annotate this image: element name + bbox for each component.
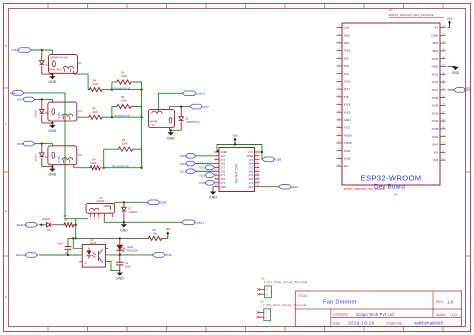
junction U3 pin1 on loop — [217, 150, 219, 152]
junction +5V on loop — [234, 143, 236, 145]
svg-text:1Y1: 1Y1 — [248, 158, 253, 162]
svg-text:1/1: 1/1 — [452, 312, 458, 317]
svg-text:10: 10 — [338, 95, 340, 97]
svg-text:2_Pin_5mm_Screw_Terminal: 2_Pin_5mm_Screw_Terminal — [263, 303, 307, 307]
svg-text:IO2: IO2 — [344, 56, 349, 60]
svg-text:13: 13 — [338, 118, 340, 120]
svg-text:IO16: IO16 — [344, 80, 351, 84]
LED LED1 Red1206 — [119, 238, 121, 244]
svg-text:IO26: IO26 — [275, 158, 282, 162]
svg-text:1A1: 1A1 — [220, 154, 225, 158]
svg-text:4: 4 — [339, 49, 340, 51]
svg-text:HF46F: HF46F — [97, 199, 105, 203]
+5V supply at U3 — [234, 139, 236, 144]
svg-text:11: 11 — [338, 103, 340, 105]
+5V supply at U7 — [449, 22, 451, 27]
svg-text:16: 16 — [338, 141, 340, 143]
svg-text:220k: 220k — [93, 82, 99, 86]
svg-text:IO04: IO04 — [291, 185, 298, 189]
wire R4 to junction row1 — [103, 89, 112, 91]
svg-text:2: 2 — [94, 218, 95, 220]
wire D1 cathode to coil return — [42, 73, 53, 75]
svg-text:IO18: IO18 — [344, 103, 351, 107]
svg-text:2A1: 2A1 — [248, 185, 253, 189]
svg-text:7: 7 — [216, 162, 217, 164]
svg-text:IO0: IO0 — [344, 64, 349, 68]
junction LED1 cathode node — [119, 254, 121, 256]
svg-text:GND: GND — [167, 136, 175, 140]
svg-text:SVN: SVN — [432, 135, 438, 139]
net label dim-selector-4A on row3 wire — [104, 167, 142, 169]
svg-text:IO13: IO13 — [432, 57, 439, 61]
svg-text:36: 36 — [443, 41, 445, 43]
junction row1 left — [111, 88, 113, 90]
svg-text:HF46F: HF46F — [58, 155, 61, 163]
wire OE enable loop around U3 — [217, 145, 262, 160]
svg-text:1A4: 1A4 — [220, 177, 225, 181]
junction D7 return on load wire — [123, 221, 125, 223]
svg-text:27: 27 — [443, 112, 445, 114]
svg-text:HF46F D4-HS: HF46F D4-HS — [51, 56, 68, 60]
junction on IO05 net — [41, 142, 43, 144]
wire opto top rail — [68, 237, 147, 239]
svg-text:dim-selector-4A: dim-selector-4A — [112, 165, 129, 168]
net port IO22 to U3 — [206, 165, 215, 170]
svg-text:K2: K2 — [78, 109, 82, 113]
relay K5 HF46F — [86, 203, 115, 213]
svg-text:IO27: IO27 — [465, 88, 471, 92]
resistor R2 220k parallel branch — [112, 107, 116, 118]
net port Load 1 — [181, 220, 194, 225]
svg-text:GND: GND — [48, 173, 56, 177]
svg-text:ESP32-WROOM: ESP32-WROOM — [361, 173, 422, 182]
svg-text:IO17: IO17 — [344, 87, 351, 91]
svg-text:ESP32_WROOM_DEV_MODULE: ESP32_WROOM_DEV_MODULE — [389, 13, 434, 17]
svg-text:1A3: 1A3 — [220, 169, 225, 173]
net port IO23 to U3 — [206, 173, 215, 178]
svg-text:SD1: SD1 — [344, 41, 350, 45]
svg-text:220k: 220k — [90, 161, 96, 165]
svg-text:GND: GND — [116, 277, 124, 281]
svg-text:IO19: IO19 — [180, 162, 187, 166]
ground at K4 — [170, 130, 172, 132]
svg-text:SD3: SD3 — [432, 41, 438, 45]
svg-text:31: 31 — [443, 80, 445, 82]
svg-text:2A3: 2A3 — [248, 169, 253, 173]
wire K5 coil to IO04 port — [115, 201, 147, 203]
svg-text:C1: C1 — [125, 261, 129, 265]
wire 5V pin to +5V — [448, 27, 450, 29]
wire U3 GND pin — [213, 187, 214, 190]
wire IO17 to relay K2 coil — [35, 99, 52, 102]
svg-text:EN: EN — [344, 164, 348, 168]
resistor R3 220k parallel branch — [104, 149, 117, 168]
U7 right pins — [440, 27, 446, 29]
junction K4 ground node — [170, 129, 172, 131]
svg-text:IO35: IO35 — [432, 127, 439, 131]
svg-text:IO19: IO19 — [344, 110, 351, 114]
svg-text:1: 1 — [339, 26, 340, 28]
resistor R8 10k pullup — [147, 236, 163, 240]
ground at U3 — [212, 190, 214, 192]
junction C2 bottom — [67, 254, 69, 256]
svg-text:2: 2 — [257, 150, 258, 152]
diode D7 1N4007 flyback — [123, 202, 125, 207]
svg-text:VCC: VCC — [248, 150, 254, 154]
svg-text:1Y4: 1Y4 — [248, 181, 253, 185]
svg-text:12: 12 — [338, 110, 340, 112]
wire D6 to R7 — [52, 224, 63, 226]
svg-text:IO27: IO27 — [432, 88, 439, 92]
wire R7 node vertical — [75, 219, 77, 239]
svg-text:2: 2 — [339, 33, 340, 35]
net port Neutral — [26, 253, 38, 258]
svg-text:1N4007: 1N4007 — [36, 109, 38, 117]
wire K5 pin to Load 1 port — [104, 217, 181, 222]
svg-text:R6: R6 — [93, 157, 97, 161]
svg-text:23: 23 — [443, 143, 445, 145]
svg-text:IO32: IO32 — [432, 119, 439, 123]
svg-text:K1: K1 — [78, 61, 82, 65]
svg-text:3: 3 — [98, 218, 99, 220]
net port IO16 — [18, 48, 31, 53]
svg-text:Load 1: Load 1 — [195, 221, 205, 225]
net port IO21 to U3 — [186, 169, 196, 174]
svg-text:220k: 220k — [122, 142, 128, 146]
svg-text:CMD: CMD — [431, 33, 439, 37]
svg-text:5: 5 — [339, 57, 340, 59]
svg-text:12: 12 — [257, 170, 259, 172]
svg-text:34: 34 — [443, 57, 445, 59]
wire Live bus vertical — [64, 93, 66, 219]
svg-text:+5V: +5V — [447, 16, 452, 20]
svg-text:8: 8 — [339, 80, 340, 82]
svg-text:28: 28 — [443, 104, 445, 106]
svg-text:220k: 220k — [92, 110, 98, 114]
svg-text:2_Pin_5mm_Screw_Terminal: 2_Pin_5mm_Screw_Terminal — [264, 280, 308, 284]
svg-text:14: 14 — [257, 174, 259, 176]
net port IO05 — [24, 141, 35, 146]
svg-text:IO04: IO04 — [160, 201, 167, 205]
wire Neutral to U2 pin2 — [39, 254, 79, 256]
svg-text:TXD0: TXD0 — [344, 141, 352, 145]
svg-text:5: 5 — [216, 158, 217, 160]
junction at D5 top — [180, 105, 182, 107]
svg-text:9: 9 — [339, 87, 340, 89]
connector U6 2_Pin_5mm_Screw_Terminal — [265, 286, 272, 298]
svg-text:IO05: IO05 — [17, 142, 24, 146]
junction at K2 coil return — [51, 122, 53, 124]
svg-text:1N4007RLG: 1N4007RLG — [185, 120, 199, 124]
svg-text:4: 4 — [257, 154, 258, 156]
svg-text:29: 29 — [443, 96, 445, 98]
wire K3 contact to R6 — [74, 165, 89, 168]
svg-text:220k: 220k — [121, 99, 127, 103]
svg-text:IO35: IO35 — [165, 253, 172, 257]
svg-text:10uF: 10uF — [125, 265, 131, 269]
svg-text:15: 15 — [338, 134, 340, 136]
wire R8 to +5V — [163, 237, 168, 239]
svg-text:32: 32 — [443, 73, 445, 75]
relay K4 HF46F — [149, 109, 175, 127]
buffer U3 SN74HCT244 — [219, 148, 255, 192]
svg-text:24: 24 — [443, 135, 445, 137]
svg-text:IO22: IO22 — [199, 166, 206, 170]
svg-text:TITLE:: TITLE: — [298, 294, 308, 298]
svg-text:16: 16 — [257, 177, 259, 179]
svg-text:GND: GND — [48, 80, 56, 84]
svg-text:10k: 10k — [153, 232, 158, 236]
module U7 ESP32_WROOM_DEV_MODULE — [342, 23, 440, 185]
svg-text:Neutral: Neutral — [16, 253, 26, 257]
svg-text:2Y3: 2Y3 — [220, 166, 225, 170]
svg-text:1N4007: 1N4007 — [42, 218, 51, 221]
svg-text:GND: GND — [452, 71, 460, 75]
junction R7 to K5 row — [75, 224, 77, 226]
svg-text:1A2: 1A2 — [220, 162, 225, 166]
svg-text:2Y2: 2Y2 — [220, 173, 225, 177]
svg-text:NC: NC — [84, 263, 88, 265]
ground at K1 — [51, 74, 53, 76]
wire U3 2A1 to IO04 port — [260, 186, 279, 188]
svg-text:GND: GND — [432, 65, 440, 69]
svg-text:IO17: IO17 — [17, 98, 24, 102]
svg-text:iCapo Tech Pvt Ltd: iCapo Tech Pvt Ltd — [356, 312, 394, 317]
svg-text:Company:: Company: — [333, 313, 349, 317]
svg-text:IO25: IO25 — [199, 181, 206, 185]
net port IO26 at U3 2OE# — [262, 157, 274, 162]
title block — [295, 291, 461, 327]
svg-text:Red1206: Red1206 — [127, 249, 138, 253]
svg-text:10: 10 — [257, 166, 259, 168]
ground at K2 — [51, 123, 53, 125]
wire U2 pin1 riser — [73, 238, 79, 248]
junction row2 left — [111, 116, 113, 118]
svg-text:3: 3 — [339, 41, 340, 43]
svg-text:2Y1: 2Y1 — [220, 181, 225, 185]
net port Live — [12, 91, 24, 96]
svg-text:18: 18 — [338, 157, 340, 159]
svg-text:2A4: 2A4 — [248, 162, 253, 166]
svg-text:IO16: IO16 — [11, 48, 18, 52]
svg-text:1Y2: 1Y2 — [248, 166, 253, 170]
wire Switch to D6 — [39, 224, 47, 226]
svg-text:Fan Dimmer: Fan Dimmer — [323, 300, 357, 306]
junction at K1 coil return — [51, 73, 53, 75]
U7 left pins — [337, 27, 343, 29]
ground at C1 — [119, 271, 121, 273]
svg-text:1Y3: 1Y3 — [248, 173, 253, 177]
svg-text:1OE#: 1OE# — [220, 150, 227, 154]
resistor R1 220k parallel branch — [111, 82, 113, 90]
net port Switch — [26, 223, 38, 228]
svg-text:IO14: IO14 — [432, 80, 439, 84]
wire K4 bottom to D5 and ground — [169, 129, 181, 131]
relay K3 HF46F — [48, 146, 77, 165]
svg-text:IO23: IO23 — [199, 173, 206, 177]
junction opto pin1 riser — [72, 237, 74, 239]
svg-text:Sheet:: Sheet: — [436, 313, 446, 317]
svg-text:33: 33 — [443, 65, 445, 67]
wire Live bus to relay K5 row — [65, 218, 88, 220]
svg-text:37: 37 — [443, 34, 445, 36]
svg-text:D7: D7 — [128, 206, 132, 210]
junction at D7 top — [123, 201, 125, 203]
svg-text:1M: 1M — [64, 217, 68, 221]
svg-text:20: 20 — [257, 185, 259, 187]
svg-text:1N4007: 1N4007 — [36, 153, 38, 161]
junction Switch net — [40, 224, 42, 226]
svg-text:B: B — [5, 44, 7, 48]
net port Load 4 — [182, 91, 195, 96]
ground at K5 — [123, 222, 125, 224]
diode D4 1N4007 flyback — [41, 144, 43, 153]
resistor R6 220k — [89, 166, 102, 170]
svg-text:GND: GND — [120, 228, 128, 232]
svg-text:Load 4: Load 4 — [196, 92, 206, 96]
svg-text:19: 19 — [215, 185, 217, 187]
svg-text:9: 9 — [216, 166, 217, 168]
wire K4 to IO27 port — [169, 106, 189, 108]
svg-text:IO21: IO21 — [180, 169, 187, 173]
resistor R5 220k — [88, 115, 104, 119]
svg-text:IO12: IO12 — [432, 72, 439, 76]
wire GND pin to ground — [448, 66, 453, 68]
capacitor C2 10uF — [67, 238, 69, 246]
svg-text:R3: R3 — [122, 138, 126, 142]
wire IO27 pin to port — [448, 89, 454, 91]
svg-text:SD2: SD2 — [432, 49, 438, 53]
svg-text:REV:: REV: — [436, 300, 444, 304]
svg-text:EN: EN — [434, 150, 438, 154]
wire R5 to junction row2 — [104, 116, 112, 118]
svg-text:IO22: IO22 — [344, 149, 351, 153]
net port IO27 at U7 — [454, 88, 465, 93]
net label dim-selector-1A on row1 wire — [112, 89, 142, 91]
net port IO17 — [24, 97, 35, 102]
wire U2 collector output — [108, 254, 152, 256]
svg-text:6: 6 — [339, 64, 340, 66]
svg-text:U7: U7 — [389, 8, 393, 12]
svg-text:17: 17 — [338, 149, 340, 151]
junction R7 node at opto rail — [75, 237, 77, 239]
junction VCC loop — [261, 151, 263, 153]
svg-text:SD0: SD0 — [344, 33, 350, 37]
relay K1 HF46F — [49, 54, 78, 73]
svg-text:IO27: IO27 — [202, 105, 209, 109]
svg-text:22: 22 — [443, 151, 445, 153]
svg-text:GND: GND — [209, 196, 217, 200]
svg-text:30: 30 — [443, 88, 445, 90]
svg-text:IO25: IO25 — [432, 104, 439, 108]
net port IO04 at K5 — [147, 200, 159, 205]
svg-text:Date:: Date: — [333, 321, 342, 325]
svg-text:6: 6 — [257, 158, 258, 160]
junction on IO16 net — [41, 49, 43, 51]
svg-text:HF46F: HF46F — [58, 111, 61, 119]
svg-text:15: 15 — [215, 177, 217, 179]
svg-text:10uF: 10uF — [57, 241, 63, 245]
svg-text:IO18: IO18 — [180, 154, 187, 158]
svg-text:Drawn By:: Drawn By: — [386, 321, 403, 325]
svg-text:dim-selector-2A: dim-selector-2A — [114, 114, 131, 117]
svg-text:1: 1 — [90, 218, 91, 220]
svg-text:220k: 220k — [121, 74, 127, 78]
net port IO27 at K4 — [190, 104, 202, 109]
svg-text:CLK: CLK — [344, 26, 351, 30]
svg-text:38: 38 — [443, 26, 445, 28]
svg-text:U7: U7 — [394, 192, 398, 196]
svg-text:SVP: SVP — [432, 143, 438, 147]
svg-text:+5V: +5V — [232, 133, 237, 137]
svg-text:21: 21 — [443, 158, 445, 160]
svg-text:19: 19 — [338, 164, 340, 166]
svg-text:IO23: IO23 — [344, 157, 351, 161]
svg-text:8: 8 — [257, 162, 258, 164]
relay K2 HF46F — [48, 102, 77, 121]
junction LED1 anode rail — [119, 237, 121, 239]
svg-text:sakibshaikh95: sakibshaikh95 — [414, 321, 444, 326]
svg-text:11: 11 — [215, 170, 217, 172]
junction row3 left — [103, 167, 105, 169]
diode D3 1N4007 flyback — [41, 99, 43, 109]
diode D6 1N4007 series — [47, 223, 51, 227]
+5V supply at R8 — [167, 233, 169, 238]
svg-text:LED1: LED1 — [127, 245, 134, 249]
svg-text:Live: Live — [10, 91, 16, 95]
capacitor C1 10uF — [119, 255, 121, 262]
svg-text:IO33: IO33 — [432, 111, 439, 115]
svg-text:5: 5 — [112, 218, 113, 220]
svg-text:D6: D6 — [47, 228, 51, 232]
net port IO35 zero-cross output — [152, 253, 164, 258]
wire Live bus horizontal — [24, 92, 65, 94]
connector U5 2_Pin_5mm_Screw_Terminal — [264, 309, 271, 321]
net port IO04 at U3 — [278, 184, 290, 189]
svg-text:IO26: IO26 — [432, 96, 439, 100]
svg-text:GND: GND — [48, 129, 56, 133]
svg-text:2019-10-16: 2019-10-16 — [348, 321, 375, 326]
svg-text:2OE#: 2OE# — [246, 154, 253, 158]
optocoupler U2 4N25 — [82, 245, 105, 268]
svg-text:IO5: IO5 — [344, 95, 349, 99]
svg-text:ESP32_WROOM_DEV_BOARD: ESP32_WROOM_DEV_BOARD — [344, 187, 385, 191]
svg-text:Switch: Switch — [17, 223, 26, 227]
wire K2 contact to R5 — [77, 116, 88, 118]
svg-text:GND: GND — [344, 118, 352, 122]
resistor R4 220k — [88, 88, 103, 92]
svg-text:2Y4: 2Y4 — [220, 158, 225, 162]
junction row1 right — [140, 88, 142, 90]
junction row2 right — [140, 116, 142, 118]
svg-text:4N25: 4N25 — [90, 241, 97, 245]
svg-text:dim-selector-1A: dim-selector-1A — [114, 87, 131, 90]
resistor R7 1M — [63, 223, 75, 227]
svg-text:IO4: IO4 — [344, 72, 349, 76]
net port IO25 to U3 — [206, 181, 215, 186]
svg-text:7: 7 — [339, 72, 340, 74]
svg-text:IO15: IO15 — [344, 49, 351, 53]
svg-text:1N4007: 1N4007 — [128, 210, 138, 214]
svg-text:26: 26 — [443, 119, 445, 121]
ground at K3 — [51, 167, 53, 169]
net port IO18 to U3 — [186, 154, 196, 159]
svg-text:2A2: 2A2 — [248, 177, 253, 181]
svg-text:25: 25 — [443, 127, 445, 129]
svg-text:SN74HCT244: SN74HCT244 — [235, 163, 239, 183]
svg-text:IO21: IO21 — [344, 126, 351, 130]
wire VCC stub to loop — [260, 151, 262, 153]
